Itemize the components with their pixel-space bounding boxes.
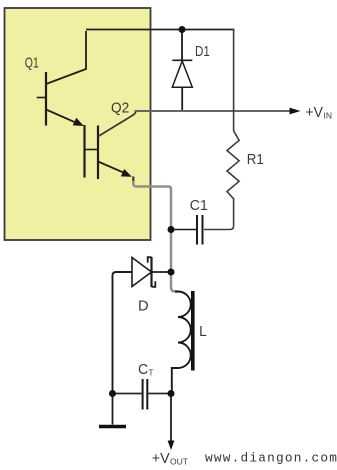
ground: [112, 394, 114, 425]
diode D (Schottky): [113, 257, 172, 391]
inductor L winding: [172, 292, 191, 392]
svg-text:C1: C1: [190, 198, 208, 214]
svg-text:+V: +V: [152, 451, 170, 467]
svg-text:D: D: [138, 299, 149, 315]
svg-text:Q1: Q1: [25, 55, 39, 71]
svg-text:T: T: [149, 369, 154, 378]
wire (bottom rail): [113, 393, 172, 395]
svg-text:+V: +V: [306, 105, 324, 121]
Q1 emitter arrowhead: [73, 118, 84, 126]
svg-text:D1: D1: [195, 44, 210, 60]
svg-text:Q2: Q2: [111, 101, 129, 117]
svg-text:www.diangon.com: www.diangon.com: [205, 451, 337, 466]
inductor L core bar: [191, 291, 195, 371]
Q2 emitter arrowhead: [121, 169, 132, 177]
+Vin arrowhead: [290, 108, 301, 115]
node: junction dot bottom left: [109, 390, 116, 397]
node: junction dot bottom right: [168, 390, 175, 397]
svg-text:R1: R1: [247, 152, 264, 168]
diode D1: [172, 30, 192, 111]
capacitor C1: [171, 215, 203, 245]
svg-text:L: L: [199, 324, 207, 340]
IC block (yellow box): [5, 8, 151, 240]
wire (+Vin rail): [135, 110, 291, 112]
resistor R1 (with branch from top rail down to C1): [204, 29, 239, 230]
svg-text:C: C: [138, 362, 148, 378]
node: junction dot C1 branch: [168, 226, 175, 233]
transistor Q1: [37, 31, 86, 126]
wire (top rail from Q1 collector to R1 branch): [86, 29, 234, 31]
svg-text:IN: IN: [324, 111, 333, 121]
wire (gray: Q2 emitter to inductor node): [132, 177, 134, 183]
svg-text:OUT: OUT: [170, 457, 188, 467]
node: junction dot top rail / D1: [179, 26, 186, 33]
+Vout arrowhead: [168, 441, 175, 451]
wire (+Vout lead): [170, 395, 172, 441]
transistor Q2: [85, 111, 136, 180]
capacitor CT: [143, 379, 148, 410]
node: junction dot diode D / inductor: [168, 269, 175, 276]
